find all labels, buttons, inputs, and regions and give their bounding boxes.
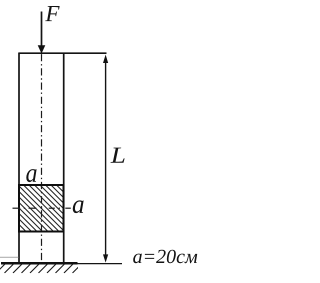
force F arrowhead <box>38 45 46 53</box>
force F arrow shaft <box>41 12 43 48</box>
label L <box>110 148 124 163</box>
label a (top of section) <box>26 169 36 182</box>
dimension line L <box>105 58 107 258</box>
column top edge with dimension extension line <box>18 52 106 54</box>
ground surface thick line <box>1 262 78 265</box>
column vertical centerline (dash-dot) <box>41 54 43 262</box>
label a (right of section) <box>73 200 84 213</box>
dimension arrowhead up <box>103 55 108 63</box>
gray remnant line left of column base <box>0 256 18 258</box>
dimension arrowhead down <box>103 254 108 262</box>
label F <box>45 6 59 21</box>
section square hatching <box>0 183 111 234</box>
column right edge <box>63 53 65 263</box>
ground hatching <box>0 264 82 273</box>
section horizontal centerline (dash-dot), hand-placed segments <box>13 207 71 209</box>
ground baseline thin extension <box>78 263 123 265</box>
column left edge <box>18 53 20 263</box>
section square outline <box>19 185 64 232</box>
value label a=20cm <box>133 250 197 264</box>
